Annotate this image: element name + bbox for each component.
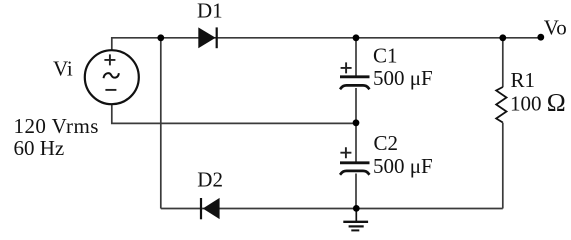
node middle junction dot [353, 119, 360, 126]
capacitor C1 [340, 62, 370, 89]
svg-text:500 μF: 500 μF [373, 154, 433, 178]
ground [343, 208, 368, 230]
node R1 top junction dot [499, 34, 506, 41]
wire R1 branch [502, 38, 504, 209]
diode D2 [201, 198, 220, 219]
svg-text:R1: R1 [511, 68, 536, 92]
svg-text:100 Ω: 100 Ω [510, 88, 566, 117]
svg-text:D1: D1 [197, 0, 223, 23]
wire C1 C2 branch [355, 38, 357, 209]
wire vertical branch node A to bottom rail [160, 38, 162, 209]
node C1 top junction dot [353, 34, 360, 41]
svg-text:D2: D2 [197, 168, 223, 192]
node Vo terminal dot [537, 34, 544, 41]
resistor R1 [496, 87, 506, 123]
node ground junction dot [353, 205, 360, 212]
wire source bottom to middle node [112, 104, 356, 123]
svg-text:C1: C1 [373, 43, 398, 67]
node A junction dot [157, 34, 164, 41]
diode D1 [198, 27, 216, 48]
wire bottom rail [161, 208, 503, 210]
svg-text:Vo: Vo [544, 16, 567, 40]
svg-text:60 Hz: 60 Hz [14, 136, 65, 160]
wire top rail from source to Vo [112, 38, 541, 51]
svg-text:Vi: Vi [53, 57, 73, 81]
svg-text:500 μF: 500 μF [373, 66, 433, 90]
svg-text:C2: C2 [374, 131, 399, 155]
capacitor C2 [340, 147, 370, 175]
voltage source Vi [85, 50, 139, 104]
svg-text:120 Vrms: 120 Vrms [14, 114, 99, 138]
